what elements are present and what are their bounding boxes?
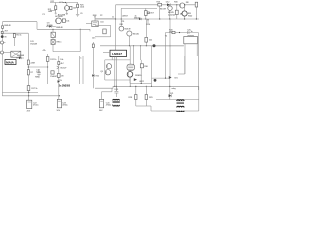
svg-text:1N4148: 1N4148 [30, 43, 38, 45]
transistor Q8 [119, 24, 131, 31]
svg-text:220R: 220R [30, 62, 35, 64]
diode D13 [139, 18, 141, 20]
diode D20 [169, 76, 179, 80]
resistor R33 [145, 19, 153, 46]
regulator U1 [103, 50, 127, 91]
resistor R22 [51, 1, 65, 13]
transistor Q10 [106, 64, 111, 69]
diode D15 [134, 78, 145, 83]
svg-text:4700u: 4700u [106, 105, 112, 107]
wire top rail [50, 2, 78, 4]
resistor R24 [61, 19, 70, 23]
wire [130, 46, 140, 87]
trimmer P2 [127, 64, 135, 70]
junction [65, 2, 66, 3]
diode D11 [58, 80, 63, 83]
diode D7 [16, 55, 25, 59]
resistor R30 [174, 1, 178, 19]
transformer T1 [113, 99, 120, 106]
junction [159, 4, 197, 19]
capacitor C23 [57, 99, 69, 112]
resistor R13 [92, 42, 94, 88]
transistor Q5 [180, 2, 190, 8]
net label [43, 9, 54, 27]
svg-text:BC327: BC327 [61, 67, 68, 69]
svg-text:BC546B: BC546B [55, 16, 63, 18]
capacitor C22 [27, 100, 40, 112]
wire relay pins [185, 44, 197, 74]
wire [28, 66, 49, 67]
left rail [2, 22, 4, 96]
bus pair [80, 56, 83, 84]
wire rail mid [100, 45, 184, 46]
resistor R31 [195, 2, 198, 19]
right outer box [166, 33, 199, 91]
resistor R17 [27, 84, 38, 100]
resistor R26 [157, 2, 162, 19]
wire mid link [37, 29, 96, 40]
svg-text:BD140: BD140 [133, 33, 140, 35]
wire [136, 106, 199, 111]
svg-text:BZX85: BZX85 [47, 25, 54, 27]
wire relay coil [169, 78, 176, 99]
bottom bus A [95, 86, 199, 92]
transistor Q12 [127, 72, 142, 78]
transistor Q7 [181, 5, 193, 19]
wire [53, 51, 80, 53]
label 2N3055 [59, 85, 71, 87]
svg-text:1N4148: 1N4148 [56, 27, 64, 29]
svg-text:2N3055: 2N3055 [135, 75, 143, 77]
wire mid column [27, 33, 29, 84]
connector J2 [1, 41, 6, 44]
svg-text:MAIA: MAIA [6, 60, 14, 64]
transistor Q1 [64, 3, 69, 15]
connector J4 [1, 51, 11, 54]
terminal J3 [152, 44, 184, 86]
transistor Q3 [57, 66, 68, 69]
ground [55, 12, 57, 15]
wire [79, 29, 81, 51]
resistor R28 [129, 86, 138, 106]
label texts bus [100, 15, 141, 23]
svg-text:2x 2N3055: 2x 2N3055 [59, 85, 71, 87]
svg-text:BD139: BD139 [125, 29, 132, 31]
relay K1 [165, 35, 198, 44]
svg-text:2-50mA: 2-50mA [168, 13, 175, 16]
resistor R27 [145, 8, 148, 19]
label BF245 [168, 12, 175, 16]
bottom bus B [2, 92, 60, 97]
wire stub [50, 9, 56, 11]
bridge rectifier B1 [11, 51, 21, 57]
label D11 [30, 41, 38, 45]
svg-text:LM317: LM317 [122, 16, 129, 18]
transistor Q6 [160, 5, 172, 19]
diode D9 [92, 74, 100, 77]
capacitor C12 [35, 69, 41, 79]
wire [169, 19, 171, 78]
resistor R14 [58, 59, 65, 65]
label P5 [43, 50, 47, 52]
capacitor C24 [99, 92, 112, 112]
transistor Q2 [55, 16, 63, 24]
resistor R10 [46, 57, 57, 62]
resistor R36 [140, 60, 148, 84]
transistor Q9 [127, 31, 140, 46]
resistor R25 [77, 3, 86, 16]
wire [178, 56, 185, 74]
junction [179, 32, 180, 33]
inner rail [121, 8, 157, 26]
opto box U2 [86, 15, 116, 27]
resistor R35 [169, 29, 175, 33]
svg-text:1N5408: 1N5408 [17, 55, 25, 57]
module MAIA [5, 60, 16, 65]
svg-text:R17 1k: R17 1k [31, 88, 38, 90]
resistor R5 [13, 33, 22, 46]
wire driver rail [105, 60, 130, 80]
wire [2, 32, 28, 34]
transistor Q11 [100, 70, 111, 75]
svg-text:LM317: LM317 [112, 52, 122, 56]
crystal X1 [51, 29, 62, 51]
wire left column x58.8 [58, 56, 60, 99]
svg-text:1N4148: 1N4148 [4, 25, 12, 27]
wire column x47.6 [47, 54, 49, 84]
box P3 corner [95, 25, 111, 36]
header P4 [147, 12, 155, 26]
wire [130, 77, 152, 84]
svg-text:BD139: BD139 [160, 9, 167, 11]
svg-text:R12 1k: R12 1k [50, 59, 57, 61]
diode D8 [50, 71, 58, 78]
big box edge [116, 5, 197, 50]
connector J1 [1, 35, 7, 38]
resistor R8 [27, 60, 35, 65]
transformer T2 [177, 100, 185, 112]
capacitor C26 [187, 29, 194, 34]
svg-text:1N4007: 1N4007 [50, 76, 58, 78]
resistor R23 [58, 6, 77, 16]
main bus [95, 18, 199, 19]
left box top edge [3, 22, 38, 30]
capacitor C25 [114, 86, 119, 97]
ground [76, 14, 79, 16]
diode D10 [57, 74, 64, 78]
wire [152, 78, 171, 82]
diode D4 [46, 25, 63, 29]
diode D12 [166, 1, 170, 6]
bottom bus C [156, 86, 199, 111]
resistor R9 [27, 70, 34, 75]
diode D21 [169, 93, 175, 97]
resistor R29 [145, 86, 153, 106]
zener D6 [1, 31, 9, 34]
diode D5 [2, 25, 12, 28]
